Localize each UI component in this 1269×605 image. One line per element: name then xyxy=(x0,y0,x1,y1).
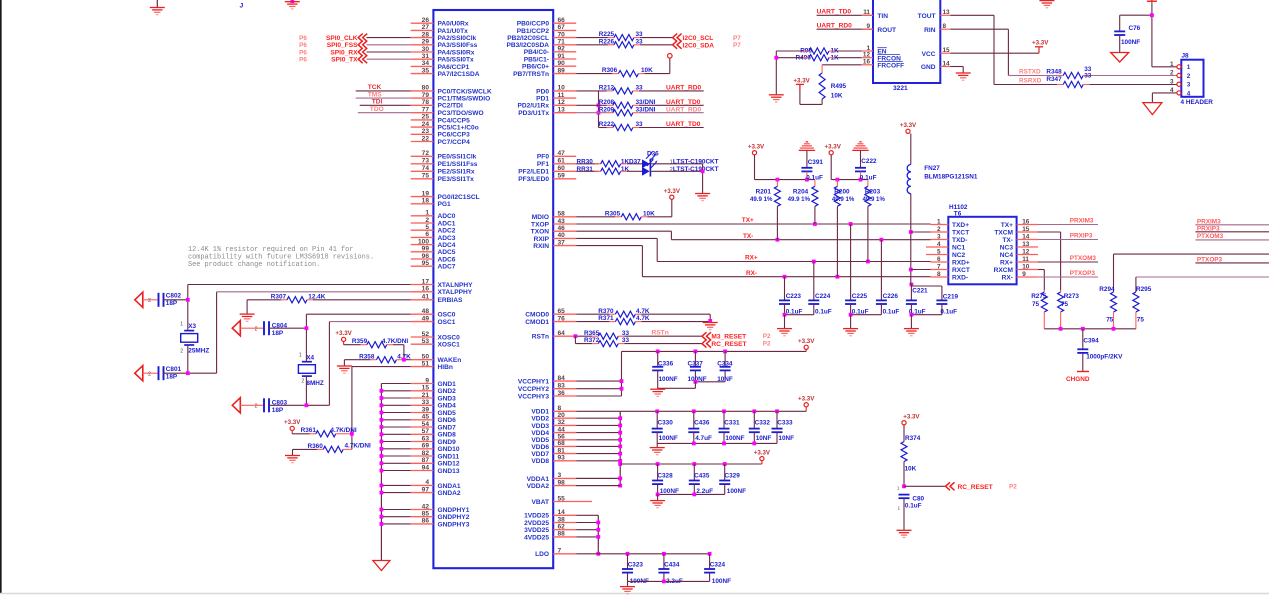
svg-text:2: 2 xyxy=(1170,70,1174,77)
svg-text:24: 24 xyxy=(422,121,430,128)
resistor R358 4.7K pull-down on WAKEn xyxy=(344,353,411,365)
svg-text:66: 66 xyxy=(558,17,566,24)
capacitor C436 4.7uF xyxy=(688,411,712,443)
svg-text:25MHZ: 25MHZ xyxy=(188,348,209,355)
svg-text:RX-: RX- xyxy=(1002,274,1013,281)
svg-text:C226: C226 xyxy=(883,293,899,300)
node PRXIP3 stub at right edge xyxy=(1195,226,1269,233)
svg-text:RSTXD: RSTXD xyxy=(1019,69,1041,76)
ground xyxy=(150,0,165,15)
svg-text:+3.3V: +3.3V xyxy=(664,188,681,195)
svg-text:C394: C394 xyxy=(1083,338,1099,345)
wire J8 pin1 to rail top xyxy=(1147,0,1177,67)
node RC_RESET chevron P2 xyxy=(702,340,771,348)
svg-text:TX+: TX+ xyxy=(1001,222,1013,229)
capacitor C336 100NF xyxy=(652,351,678,388)
svg-text:5: 5 xyxy=(425,224,429,231)
svg-text:GND8: GND8 xyxy=(438,432,457,439)
svg-text:89: 89 xyxy=(558,67,566,74)
svg-text:OSC0: OSC0 xyxy=(438,312,456,319)
svg-text:47: 47 xyxy=(558,150,566,157)
svg-text:VDD3: VDD3 xyxy=(531,423,549,430)
ground below R360 xyxy=(285,455,300,457)
svg-text:R201: R201 xyxy=(756,189,772,196)
svg-text:100NF: 100NF xyxy=(659,376,678,383)
svg-text:1: 1 xyxy=(1187,64,1191,71)
svg-text:69: 69 xyxy=(422,443,430,450)
svg-text:UART_TD0: UART_TD0 xyxy=(666,99,701,106)
svg-text:See product change notificatio: See product change notification. xyxy=(188,261,320,269)
sheet border left edge xyxy=(0,0,2,593)
svg-text:98: 98 xyxy=(558,479,566,486)
svg-text:RSTn: RSTn xyxy=(532,334,549,341)
svg-text:PA1/U0Tx: PA1/U0Tx xyxy=(438,28,469,35)
svg-text:57: 57 xyxy=(422,428,430,435)
resistor R370 4.7K xyxy=(576,308,710,321)
svg-text:84: 84 xyxy=(558,375,566,382)
svg-text:MDIO: MDIO xyxy=(532,214,549,221)
svg-text:49.9 1%: 49.9 1% xyxy=(750,196,773,203)
svg-text:R348: R348 xyxy=(1046,69,1062,76)
svg-text:10NF: 10NF xyxy=(778,435,794,442)
svg-text:GNDPHY2: GNDPHY2 xyxy=(438,514,470,521)
resistor R496 1K on FRCON xyxy=(776,54,861,61)
svg-text:PE0/SSI1Clk: PE0/SSI1Clk xyxy=(438,154,477,161)
svg-text:BLM18PG121SN1: BLM18PG121SN1 xyxy=(924,174,978,181)
node SPI0_FSS label with chevron and wire to pin xyxy=(299,41,411,49)
svg-text:4VDD25: 4VDD25 xyxy=(524,534,549,541)
capacitor C331 100NF xyxy=(719,411,745,443)
svg-text:6: 6 xyxy=(425,231,429,238)
svg-text:59: 59 xyxy=(558,173,566,180)
svg-text:C801: C801 xyxy=(166,366,182,373)
svg-text:73: 73 xyxy=(422,158,430,165)
svg-text:VBAT: VBAT xyxy=(532,499,549,506)
svg-text:CHGND: CHGND xyxy=(1066,376,1090,383)
svg-text:R225: R225 xyxy=(599,31,615,38)
svg-text:20: 20 xyxy=(558,412,566,419)
svg-text:49.9 1%: 49.9 1% xyxy=(788,196,811,203)
svg-text:R305: R305 xyxy=(605,210,621,217)
capacitor C801 18P xyxy=(135,366,217,381)
svg-text:FN27: FN27 xyxy=(924,165,940,172)
svg-text:PF0: PF0 xyxy=(537,154,549,161)
svg-text:R204: R204 xyxy=(793,189,809,196)
ground with junction at top edge xyxy=(285,0,300,9)
power +3.3V above FN27 xyxy=(900,122,917,164)
svg-text:GND7: GND7 xyxy=(438,424,457,431)
svg-text:82: 82 xyxy=(422,450,430,457)
svg-text:RX-: RX- xyxy=(746,270,757,277)
svg-text:26: 26 xyxy=(422,17,430,24)
svg-text:30: 30 xyxy=(422,46,430,53)
svg-text:PC1/TMS/SWDIO: PC1/TMS/SWDIO xyxy=(438,96,491,103)
svg-text:11: 11 xyxy=(1022,256,1029,263)
power +3.3V above R305 xyxy=(670,195,674,199)
svg-text:C802: C802 xyxy=(166,293,182,300)
svg-text:P2: P2 xyxy=(1009,484,1017,491)
svg-text:R371: R371 xyxy=(598,315,614,322)
capacitor C223 0.1uF xyxy=(779,277,802,316)
svg-text:R370: R370 xyxy=(598,308,614,315)
svg-text:SPI0_FSS: SPI0_FSS xyxy=(327,42,358,49)
svg-text:TXCM: TXCM xyxy=(994,229,1013,236)
svg-text:NC4: NC4 xyxy=(1000,252,1014,259)
svg-text:55: 55 xyxy=(558,495,566,502)
node M3_RESET chevron P2 xyxy=(702,332,771,340)
node UART_TD0 to 3221 xyxy=(817,8,873,15)
svg-text:12: 12 xyxy=(1022,249,1030,256)
svg-text:TIN: TIN xyxy=(877,13,888,20)
svg-text:46: 46 xyxy=(558,225,566,232)
svg-text:18P: 18P xyxy=(166,300,178,307)
svg-text:94: 94 xyxy=(422,464,430,471)
svg-text:80: 80 xyxy=(422,85,430,92)
svg-text:+3.3V: +3.3V xyxy=(900,122,917,129)
svg-text:XTALPPHY: XTALPPHY xyxy=(438,289,473,296)
wire VDDA pins to bus xyxy=(576,477,622,486)
svg-text:M3_RESET: M3_RESET xyxy=(711,334,746,341)
capacitor C323 100NF xyxy=(622,554,649,585)
node TMS label and wire xyxy=(356,91,411,98)
svg-text:PC2/TDI: PC2/TDI xyxy=(438,103,463,110)
svg-text:74: 74 xyxy=(422,165,430,172)
svg-text:RXD-: RXD- xyxy=(952,274,968,281)
svg-text:TXCT: TXCT xyxy=(952,229,969,236)
wire VCCPHY pins to rail xyxy=(576,379,623,396)
svg-text:13: 13 xyxy=(558,107,566,114)
wire RIN to RSTXD xyxy=(950,29,1022,75)
svg-text:C330: C330 xyxy=(658,420,674,427)
svg-text:CMOD1: CMOD1 xyxy=(525,319,549,326)
svg-text:11: 11 xyxy=(863,9,870,16)
svg-text:100NF: 100NF xyxy=(1121,39,1140,46)
capacitor C221 0.1uF xyxy=(906,283,928,316)
svg-text:75: 75 xyxy=(1106,317,1114,324)
power +3.3V right rail xyxy=(825,144,868,182)
svg-text:TX+: TX+ xyxy=(742,217,754,224)
svg-text:P2: P2 xyxy=(763,333,771,340)
svg-text:44: 44 xyxy=(558,426,566,433)
node SPI0_RX label with chevron and wire to pin xyxy=(299,48,411,56)
power +3.3V below R495 xyxy=(793,77,810,91)
svg-text:32: 32 xyxy=(558,419,566,426)
resistor R203 49.9 1% xyxy=(863,180,886,262)
svg-text:PF1: PF1 xyxy=(537,161,549,168)
IC U2 3221 body xyxy=(873,0,940,83)
svg-text:VDD2: VDD2 xyxy=(531,416,549,423)
resistor R360 4.7K/DNI xyxy=(293,443,372,456)
svg-text:1: 1 xyxy=(937,219,941,226)
capacitor C330 100NF xyxy=(652,411,678,443)
svg-text:PA6/CCP1: PA6/CCP1 xyxy=(438,64,470,71)
svg-text:97: 97 xyxy=(422,486,430,493)
svg-text:100NF: 100NF xyxy=(712,578,731,585)
capacitor C802 18P xyxy=(135,292,188,307)
svg-text:22: 22 xyxy=(422,135,430,142)
wire LED cathodes to ground xyxy=(701,164,705,194)
svg-text:GND11: GND11 xyxy=(438,453,460,460)
svg-text:90: 90 xyxy=(558,60,566,67)
svg-text:PB7/TRSTn: PB7/TRSTn xyxy=(513,71,549,78)
capacitor C219 0.1uF xyxy=(911,286,958,315)
svg-text:1: 1 xyxy=(897,506,900,511)
wire RX+ net xyxy=(576,238,930,263)
svg-text:PC4/CCP5: PC4/CCP5 xyxy=(438,117,471,124)
capacitor C329 100NF xyxy=(719,464,746,495)
svg-text:99: 99 xyxy=(422,246,430,253)
svg-text:R372: R372 xyxy=(584,337,600,344)
svg-text:100NF: 100NF xyxy=(725,435,744,442)
svg-text:GND5: GND5 xyxy=(438,410,457,417)
svg-text:12: 12 xyxy=(558,99,566,106)
ground triangle at GND bus bottom xyxy=(373,561,390,571)
svg-text:PC7/CCP4: PC7/CCP4 xyxy=(438,139,471,146)
svg-text:P6: P6 xyxy=(299,57,307,64)
svg-text:0.1uF: 0.1uF xyxy=(883,308,900,315)
svg-text:PA7/I2C1SDA: PA7/I2C1SDA xyxy=(438,71,480,78)
capacitor C333 10NF xyxy=(772,411,795,443)
node PRXIM3 wire from pin16 xyxy=(1038,218,1098,225)
svg-text:3221: 3221 xyxy=(893,85,908,92)
svg-text:ERBIAS: ERBIAS xyxy=(438,297,464,304)
svg-text:VDD4: VDD4 xyxy=(531,430,549,437)
svg-text:VDDA1: VDDA1 xyxy=(527,476,550,483)
svg-text:SPI0_CLK: SPI0_CLK xyxy=(326,35,358,42)
svg-text:ADC6: ADC6 xyxy=(438,256,456,263)
svg-text:79: 79 xyxy=(422,92,430,99)
IC U1 right pins: stubs, numbers and names xyxy=(506,17,592,558)
svg-text:37: 37 xyxy=(558,239,566,246)
svg-text:9: 9 xyxy=(425,377,429,384)
crystal X3 25MHZ xyxy=(180,300,209,373)
svg-text:10K: 10K xyxy=(905,465,917,472)
svg-text:53: 53 xyxy=(422,338,430,345)
resistor R361 4.7K/DNI xyxy=(292,427,357,437)
svg-text:HIBn: HIBn xyxy=(438,364,453,371)
svg-text:PD0: PD0 xyxy=(536,88,549,95)
svg-text:RX+: RX+ xyxy=(1000,259,1013,266)
svg-text:XOSC0: XOSC0 xyxy=(438,334,461,341)
svg-text:PB6/C0+: PB6/C0+ xyxy=(522,64,549,71)
svg-text:3: 3 xyxy=(558,472,562,479)
ground below C336 xyxy=(650,388,665,390)
svg-text:33: 33 xyxy=(1084,72,1092,79)
power +3.3V for VCCPHY xyxy=(622,338,816,396)
svg-text:7: 7 xyxy=(937,264,941,271)
svg-text:64: 64 xyxy=(558,330,566,337)
svg-text:18P: 18P xyxy=(272,330,284,337)
svg-text:7: 7 xyxy=(558,548,562,555)
power +3.3V at 3221 VCC xyxy=(1032,40,1049,47)
capacitor C804 18P xyxy=(232,321,306,337)
svg-text:PC0/TCK/SWCLK: PC0/TCK/SWCLK xyxy=(438,88,492,95)
svg-text:15: 15 xyxy=(1022,226,1030,233)
svg-text:GNDPHY1: GNDPHY1 xyxy=(438,507,470,514)
resistor R226 33 ohm to I2C0_SDA xyxy=(576,38,672,48)
ground at top right xyxy=(1039,0,1054,2)
svg-text:P2: P2 xyxy=(763,340,771,347)
node I2C0_SCL chevron label P7 xyxy=(673,34,742,43)
LED D36 LTST-C190CKT xyxy=(642,151,719,170)
svg-text:P6: P6 xyxy=(299,35,307,42)
svg-text:+3.3V: +3.3V xyxy=(793,77,810,84)
capacitor C222 0.1uF xyxy=(852,142,877,182)
svg-text:+3.3V: +3.3V xyxy=(335,330,352,337)
svg-text:XTALNPHY: XTALNPHY xyxy=(438,282,474,289)
svg-text:GND1: GND1 xyxy=(438,381,457,388)
svg-text:C221: C221 xyxy=(912,287,928,294)
svg-text:PB5/C1-: PB5/C1- xyxy=(524,56,549,63)
svg-text:C333: C333 xyxy=(777,420,793,427)
wire VDD cap rail xyxy=(620,409,806,413)
wire GND pin of 3221 xyxy=(950,67,963,73)
power +3.3V for R361 xyxy=(284,419,301,434)
svg-text:R374: R374 xyxy=(905,435,921,442)
svg-text:TX-: TX- xyxy=(1002,237,1013,244)
svg-text:9: 9 xyxy=(866,23,870,30)
ground below 3221 xyxy=(956,72,971,74)
svg-text:C222: C222 xyxy=(861,158,877,165)
resistor R95 1K on EN xyxy=(776,47,861,54)
svg-text:D37: D37 xyxy=(629,159,641,166)
node TDI label and wire xyxy=(360,99,411,106)
svg-text:16: 16 xyxy=(863,59,871,66)
power +3.3V for R359 xyxy=(335,330,352,345)
svg-text:TXD+: TXD+ xyxy=(952,222,969,229)
svg-text:17: 17 xyxy=(422,278,430,285)
svg-text:C328: C328 xyxy=(657,473,673,480)
svg-text:12: 12 xyxy=(863,52,871,59)
wire VDD25 bus xyxy=(576,515,600,555)
svg-text:LDO: LDO xyxy=(535,551,549,558)
svg-text:70: 70 xyxy=(558,31,566,38)
wire LDO caps ground rail xyxy=(628,580,710,587)
wire C221 C219 common ground xyxy=(910,313,942,329)
wire VDD caps ground rail xyxy=(657,442,777,448)
wire TOUT to RSRXD xyxy=(950,15,1022,84)
svg-text:68: 68 xyxy=(558,440,566,447)
wire GND bus with junctions xyxy=(380,384,411,561)
svg-text:4: 4 xyxy=(1187,90,1191,97)
node UART_RD0 to 3221 xyxy=(817,22,873,29)
svg-text:PC3/TDO/SWO: PC3/TDO/SWO xyxy=(438,110,484,117)
svg-text:RSTn: RSTn xyxy=(652,330,669,337)
svg-text:GND2: GND2 xyxy=(438,388,457,395)
svg-text:NC1: NC1 xyxy=(952,244,966,251)
svg-text:PA4/SSI0Rx: PA4/SSI0Rx xyxy=(438,49,475,56)
svg-text:75: 75 xyxy=(422,173,430,180)
node PTXOP3 long wire to R295 xyxy=(1136,277,1269,292)
svg-text:4 HEADER: 4 HEADER xyxy=(1181,99,1214,106)
svg-text:40: 40 xyxy=(558,232,566,239)
svg-text:PE3/SSI1Tx: PE3/SSI1Tx xyxy=(438,176,475,183)
svg-text:33: 33 xyxy=(422,399,430,406)
svg-text:R226: R226 xyxy=(599,38,615,45)
wire TX+ net xyxy=(576,217,930,226)
svg-text:2: 2 xyxy=(301,378,304,384)
svg-text:P6: P6 xyxy=(299,42,307,49)
connector J8 pins xyxy=(1170,61,1191,97)
svg-text:+3.3V: +3.3V xyxy=(798,396,815,403)
svg-text:39: 39 xyxy=(422,406,430,413)
svg-text:+3.3V: +3.3V xyxy=(903,414,920,421)
resistor R273 75 xyxy=(1058,290,1080,329)
svg-text:R208: R208 xyxy=(599,99,615,106)
svg-text:85: 85 xyxy=(422,511,430,518)
svg-text:TXON: TXON xyxy=(531,229,550,236)
resistor R305 10K on MDIO xyxy=(576,199,672,220)
svg-text:ADC3: ADC3 xyxy=(438,235,456,242)
svg-text:J: J xyxy=(240,3,244,10)
svg-text:TXD-: TXD- xyxy=(952,237,967,244)
svg-text:VCCPHY1: VCCPHY1 xyxy=(518,379,549,386)
svg-text:51: 51 xyxy=(422,360,430,367)
svg-text:CMOD0: CMOD0 xyxy=(525,312,549,319)
svg-text:NC3: NC3 xyxy=(1000,244,1014,251)
power +3.3V for VDDA rail xyxy=(620,449,771,466)
svg-text:14: 14 xyxy=(558,509,566,516)
svg-text:1: 1 xyxy=(425,210,429,217)
svg-text:10NF: 10NF xyxy=(756,435,772,442)
capacitor C337 100NF xyxy=(688,351,707,382)
svg-text:61: 61 xyxy=(558,158,566,165)
capacitor C334 10NF xyxy=(717,351,733,382)
svg-text:C329: C329 xyxy=(725,473,741,480)
svg-text:GND6: GND6 xyxy=(438,417,457,424)
svg-text:R365: R365 xyxy=(584,330,600,337)
node I2C0_SDA chevron label P7 xyxy=(673,41,742,50)
node PTXOM3 stub at right edge xyxy=(1195,233,1269,240)
svg-text:RSRXD: RSRXD xyxy=(1019,77,1042,84)
svg-text:1: 1 xyxy=(897,485,900,490)
svg-text:PF3/LED0: PF3/LED0 xyxy=(518,176,549,183)
node RC_RESET chevron at R374 xyxy=(902,482,1017,491)
resistor R225 33 ohm to I2C0_SCL xyxy=(576,31,672,41)
svg-text:UART_RD0: UART_RD0 xyxy=(666,85,702,92)
svg-text:ADC7: ADC7 xyxy=(438,264,456,271)
svg-text:RX+: RX+ xyxy=(745,255,758,262)
svg-text:VDD7: VDD7 xyxy=(531,451,549,458)
svg-text:OSC1: OSC1 xyxy=(438,319,456,326)
svg-text:2: 2 xyxy=(180,349,183,355)
resistor R347 33 RSRXD xyxy=(1019,72,1177,87)
svg-text:TDO: TDO xyxy=(370,106,384,113)
svg-text:SPI0_RX: SPI0_RX xyxy=(330,49,358,56)
wire UART bus vertical xyxy=(597,91,601,128)
ground below R95 xyxy=(769,94,784,96)
svg-text:ADC2: ADC2 xyxy=(438,228,456,235)
svg-text:67: 67 xyxy=(558,24,566,31)
svg-text:54: 54 xyxy=(422,421,430,428)
svg-text:VDD8: VDD8 xyxy=(531,458,549,465)
svg-text:R273: R273 xyxy=(1064,293,1080,300)
svg-text:C323: C323 xyxy=(628,561,644,568)
svg-text:0.1uF: 0.1uF xyxy=(905,503,922,510)
svg-text:R212: R212 xyxy=(599,85,615,92)
svg-text:58: 58 xyxy=(558,211,566,218)
resistor R200 49.9 1% xyxy=(832,180,855,277)
svg-text:62: 62 xyxy=(558,524,566,531)
svg-text:C224: C224 xyxy=(815,293,831,300)
svg-text:ADC5: ADC5 xyxy=(438,249,456,256)
wire XTALPPHY pin16 xyxy=(186,292,411,375)
svg-text:21: 21 xyxy=(422,392,430,399)
svg-text:ROUT: ROUT xyxy=(877,27,896,34)
capacitor C328 100NF xyxy=(652,464,679,495)
wire RXCM to R275 xyxy=(1038,270,1044,291)
svg-text:+3.3V: +3.3V xyxy=(284,419,301,426)
